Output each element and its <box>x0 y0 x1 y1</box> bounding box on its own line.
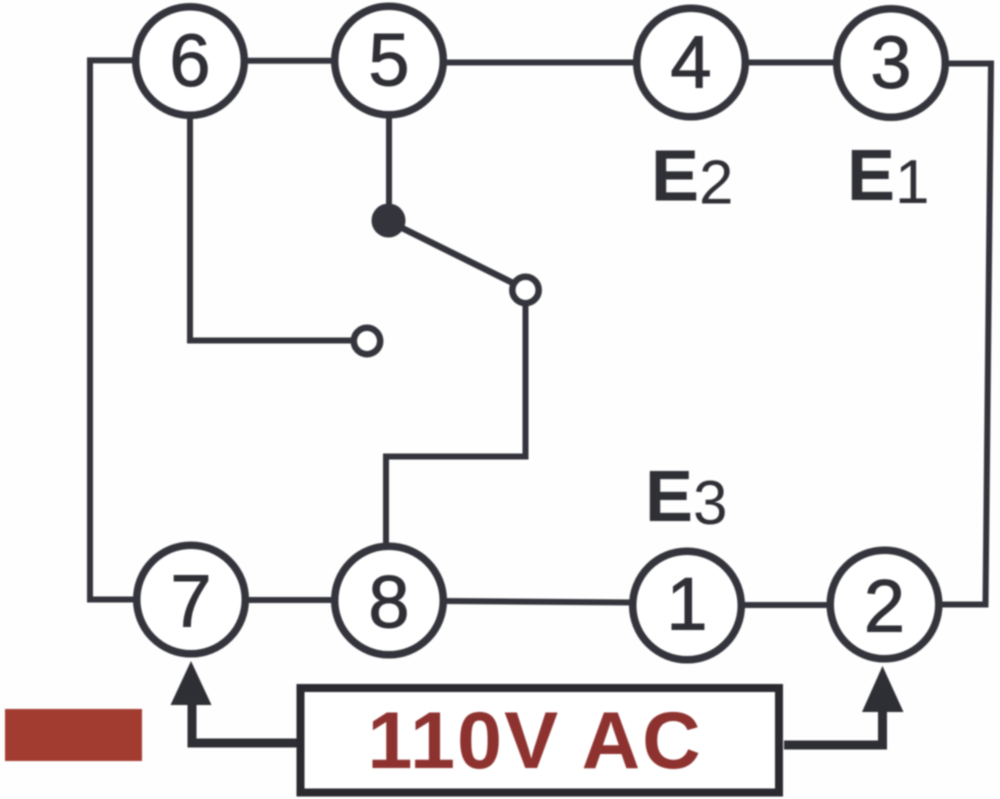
svg-text:2: 2 <box>864 565 905 648</box>
svg-text:7: 7 <box>170 560 211 643</box>
svg-text:110V AC: 110V AC <box>367 696 702 786</box>
svg-text:E2: E2 <box>651 137 734 218</box>
svg-text:6: 6 <box>169 19 210 102</box>
svg-text:8: 8 <box>368 561 409 644</box>
svg-text:3: 3 <box>870 21 911 104</box>
svg-text:4: 4 <box>670 21 711 104</box>
svg-text:5: 5 <box>368 19 409 102</box>
svg-text:E3: E3 <box>645 457 728 538</box>
svg-text:E1: E1 <box>847 136 930 217</box>
svg-text:1: 1 <box>666 563 707 646</box>
